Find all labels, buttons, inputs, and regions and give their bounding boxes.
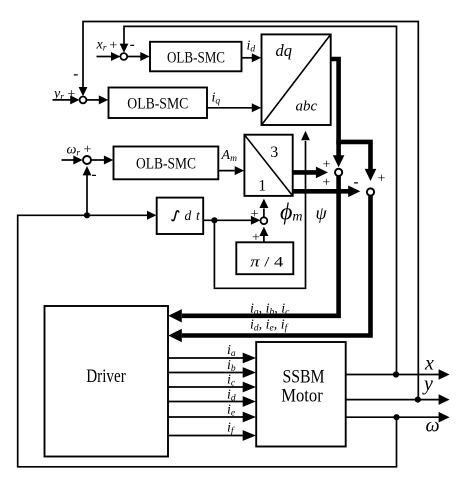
wire x_r summer to OLB-SMC 1 (127, 56, 140, 58)
node summing junction y_r (80, 97, 87, 104)
wire branch up from omega line to omega_r summer (86, 175, 88, 215)
block 3/1 gain (244, 135, 292, 196)
svg-text:id: id (247, 39, 256, 55)
svg-text:yr: yr (52, 87, 64, 103)
block pi/4 offset (236, 242, 293, 274)
wire integrator output to phase summer (203, 219, 251, 221)
svg-text:OLB-SMC: OLB-SMC (136, 155, 196, 172)
svg-text:x: x (424, 353, 434, 375)
wire thick 3/1 upper output to summer J1 (293, 170, 317, 175)
wire i_b driver to motor (168, 372, 243, 374)
svg-text:-: - (130, 37, 135, 53)
wire i_d driver to motor (168, 401, 243, 403)
wire i_a driver to motor (168, 357, 243, 359)
svg-text:+: + (252, 231, 260, 246)
block OLB-SMC 1 (150, 42, 242, 72)
block Driver (45, 306, 169, 457)
svg-text:ia, ib, ic: ia, ib, ic (250, 302, 290, 318)
svg-text:ϕm: ϕm (280, 200, 303, 226)
node junction dot on omega line branch (84, 212, 90, 218)
svg-text:3: 3 (270, 144, 278, 161)
node summing junction phase (261, 217, 268, 224)
wire phase summer up into 3/1 block (263, 209, 265, 218)
svg-text:+: + (84, 143, 92, 158)
wire i_d from OLB-SMC 1 to dq/abc (242, 57, 253, 59)
wire omega_r summer to OLB-SMC 3 (91, 159, 104, 161)
svg-text:+: + (323, 158, 331, 173)
svg-text:+: + (109, 38, 117, 53)
svg-text:ψ: ψ (316, 203, 328, 223)
svg-text:xr: xr (96, 38, 107, 54)
svg-text:ic: ic (227, 373, 236, 389)
wire thick branch right to summer J2 (336, 142, 370, 170)
wire i_c driver to motor (168, 386, 243, 388)
svg-text:+: + (378, 171, 386, 186)
svg-text:iq: iq (212, 91, 221, 107)
wire outer y-feedback rectangle (top line y=21.5, left x=83, right x=418.3) (83, 22, 418, 400)
svg-text:y: y (422, 373, 433, 395)
svg-text:d: d (185, 208, 192, 223)
wire thick 3/1 lower output to summer J2 (293, 189, 349, 194)
svg-text:ie: ie (227, 403, 235, 419)
wire arrowhead down into y_r summer (79, 87, 88, 96)
block SSBM Motor (256, 342, 346, 447)
node omega_r input arrow (62, 159, 75, 161)
wire i_f driver to motor (168, 435, 243, 437)
wire A_m from OLB-SMC 3 to 3/1 block (218, 170, 235, 172)
svg-text:id: id (227, 388, 236, 404)
svg-text:ωr: ωr (67, 143, 81, 159)
svg-text:ω: ω (426, 414, 440, 436)
wire pi/4 up to phase summer (263, 236, 265, 242)
svg-text:Am: Am (221, 148, 238, 164)
svg-text:OLB-SMC: OLB-SMC (127, 95, 188, 112)
svg-text:+: + (322, 176, 330, 191)
block dq/abc transformation (262, 34, 331, 125)
svg-text:OLB-SMC: OLB-SMC (167, 49, 225, 66)
svg-text:-: - (354, 175, 359, 191)
svg-text:+: + (251, 207, 259, 222)
wire arrowhead down into x_r summer (120, 44, 129, 53)
node summing junction x_r (120, 53, 127, 60)
wire arrowhead up into omega_r summer (83, 166, 92, 175)
node junction dot omega feedback (393, 414, 399, 420)
node junction dot x feedback (393, 371, 399, 377)
svg-text:abc: abc (296, 99, 318, 115)
wire i_q from OLB-SMC 2 to dq/abc (207, 107, 252, 109)
svg-text:1: 1 (258, 178, 266, 195)
svg-text:if: if (227, 421, 235, 437)
svg-text:π / 4: π / 4 (250, 255, 284, 271)
svg-text:id, ie, if: id, ie, if (250, 318, 289, 334)
wire motor output omega (346, 416, 439, 418)
wire thick dq/abc output down to summer J1 (331, 59, 339, 156)
wire arrowhead right into integrator box (147, 211, 156, 220)
node summing junction J2 (367, 188, 374, 195)
svg-text:+: + (67, 87, 75, 102)
block OLB-SMC 2 (109, 88, 208, 119)
wire phi_m angle path from integrator dot to dq/abc bottom (214, 141, 305, 288)
svg-text:Driver: Driver (86, 366, 126, 387)
wire motor output y (346, 399, 439, 401)
wire thick J1 output down-left into Driver (ia ib ic) (182, 176, 339, 316)
wire motor output x (346, 374, 439, 376)
block OLB-SMC 3 (114, 147, 219, 180)
svg-text:Motor: Motor (281, 386, 323, 407)
node summing junction omega_r (83, 156, 91, 164)
wire omega feedback loop (right x=396.5, bottom y=466.8, left x=17.7, to integrator) (18, 215, 397, 466)
wire y_r summer to OLB-SMC 2 (86, 99, 99, 101)
svg-text:dq: dq (276, 41, 293, 60)
node x_r input arrow (97, 56, 113, 58)
svg-text:ia: ia (227, 343, 236, 359)
node junction dot y feedback (415, 397, 421, 403)
svg-text:-: - (92, 167, 97, 183)
block integrator (157, 198, 204, 234)
wire outer x-feedback rectangle (top line y=26.4, left x=124, right x=396.5) (124, 26, 397, 374)
svg-text:-: - (73, 67, 78, 83)
node y_r input arrow (53, 99, 72, 101)
node junction dot on integrator output (211, 217, 217, 223)
svg-text:SSBM: SSBM (283, 367, 325, 388)
wire thick J2 output down-left into Driver (id ie if) (182, 196, 371, 336)
wire i_e driver to motor (168, 416, 243, 418)
node summing junction J1 (335, 169, 342, 176)
